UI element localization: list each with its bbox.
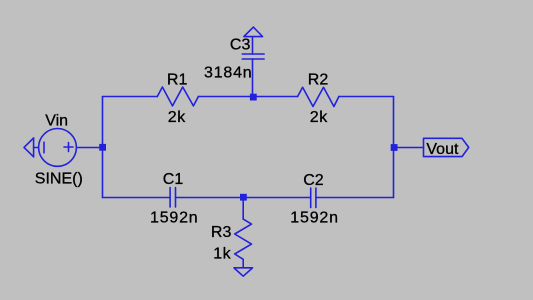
node D junction (R3 tap): [240, 194, 247, 201]
ground left (rotated) at source: [24, 138, 38, 157]
V1 plus marker: [64, 143, 73, 152]
V1 minus marker: [43, 142, 45, 153]
wire R3 top lead: [242, 198, 244, 220]
svg-text:1592n: 1592n: [150, 209, 199, 226]
node C junction (C3 tap): [250, 94, 257, 101]
ground top (flipped) above C3: [244, 27, 263, 36]
wire top-middle segment: [198, 96, 297, 98]
svg-text:C1: C1: [163, 171, 184, 188]
svg-text:SINE(): SINE(): [35, 170, 83, 187]
wire node B to Vout flag: [394, 147, 424, 149]
resistor R3: [235, 219, 252, 259]
capacitor C1: [170, 188, 175, 208]
svg-text:R3: R3: [211, 224, 232, 241]
net flag Vout outline: [424, 138, 469, 156]
wire bottom-middle segment: [176, 197, 311, 199]
svg-text:C2: C2: [303, 172, 324, 189]
wire bottom-right segment: [316, 197, 394, 199]
wire left vertical: [102, 97, 104, 198]
wire R3 bottom lead: [242, 259, 244, 268]
node A junction (source): [99, 144, 106, 151]
svg-text:1592n: 1592n: [290, 209, 339, 226]
svg-text:2k: 2k: [310, 109, 328, 126]
wire C3 top: [252, 37, 254, 54]
resistor R1: [157, 87, 198, 106]
wire C3 bottom: [252, 59, 254, 97]
wire top-left segment: [103, 96, 158, 98]
svg-text:1k: 1k: [213, 246, 231, 263]
svg-text:C3: C3: [230, 37, 251, 54]
wire right vertical: [393, 97, 395, 198]
wire bottom-left segment: [103, 197, 171, 199]
svg-text:Vin: Vin: [45, 113, 68, 130]
wire top-right segment: [339, 96, 394, 98]
svg-text:Vout: Vout: [426, 141, 459, 158]
voltage source V1 circle: [39, 129, 77, 167]
ground bottom under R3: [234, 268, 253, 276]
wire source to node A: [77, 147, 103, 149]
svg-text:3184n: 3184n: [204, 64, 253, 81]
svg-text:2k: 2k: [168, 109, 186, 126]
node B junction (output): [391, 144, 398, 151]
capacitor C2: [311, 188, 316, 208]
resistor R2: [298, 87, 339, 106]
svg-text:R1: R1: [167, 71, 188, 88]
capacitor C3: [242, 54, 264, 59]
svg-text:R2: R2: [308, 71, 329, 88]
